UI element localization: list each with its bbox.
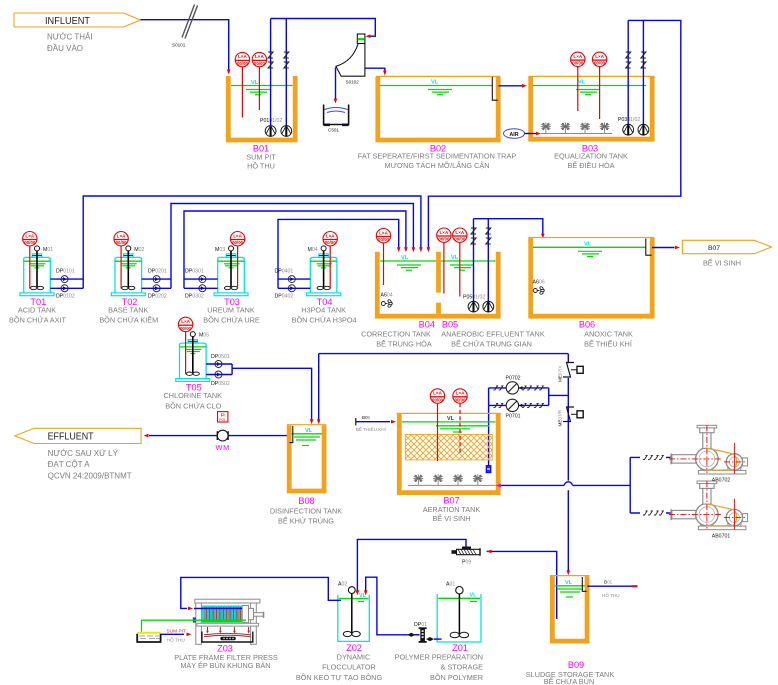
banner B07 (to biological tank) xyxy=(682,240,771,267)
tank B08 xyxy=(287,425,326,491)
wire blower AB0701 suction branch xyxy=(630,511,672,515)
banner EFFLUENT xyxy=(15,428,141,480)
flex break B05 riser2 xyxy=(486,228,491,244)
wire blower AB0702 suction branch xyxy=(630,455,672,459)
svg-text:SUM PIT: SUM PIT xyxy=(167,628,187,634)
dosing pump DP0302 xyxy=(199,285,206,292)
svg-text:POL: POL xyxy=(219,418,226,422)
instrument LS B01-2 xyxy=(252,52,266,110)
wire T02 dosing to B04 xyxy=(142,204,414,289)
wire P09 suction from B09 xyxy=(487,551,557,619)
svg-text:B05: B05 xyxy=(442,319,458,329)
svg-text:M04: M04 xyxy=(308,247,318,253)
svg-text:HỒ THU: HỒ THU xyxy=(247,161,275,171)
svg-text:BỒN CHỨA AXIT: BỒN CHỨA AXIT xyxy=(9,315,66,325)
connector sump pit xyxy=(161,628,192,643)
flex break riser2 xyxy=(284,52,289,68)
mixer A606 xyxy=(533,280,545,295)
wire S0102 solids chute to C501 xyxy=(335,68,337,99)
tank B04+B05 shell xyxy=(377,252,498,317)
svg-text:DP0301: DP0301 xyxy=(185,269,204,275)
tank T04 xyxy=(307,246,341,296)
arrow into B01 xyxy=(227,70,231,75)
green filtrate ticks under plates xyxy=(202,621,241,623)
wire T01 dosing to B04 xyxy=(50,196,421,288)
svg-text:VL: VL xyxy=(470,593,478,599)
svg-text:AERATION TANK: AERATION TANK xyxy=(423,505,481,514)
svg-text:DP0101: DP0101 xyxy=(56,269,75,275)
dosing pump DP0502 xyxy=(215,371,222,378)
svg-text:P0702: P0702 xyxy=(505,376,520,382)
instrument LS B07-1 xyxy=(430,389,444,461)
svg-text:BỒN CHỨA URE: BỒN CHỨA URE xyxy=(203,315,260,325)
svg-text:P0701: P0701 xyxy=(505,414,520,420)
screen S0102 xyxy=(336,34,365,85)
container C501 xyxy=(324,105,349,133)
svg-text:WM: WM xyxy=(216,443,230,452)
svg-text:VL: VL xyxy=(401,255,409,261)
wire B09 outlet connector xyxy=(587,580,637,598)
divider wall B04|B05 xyxy=(436,252,441,314)
air manifold B07 xyxy=(408,484,496,486)
air fitting in B07 xyxy=(486,466,491,473)
svg-text:DP0102: DP0102 xyxy=(56,293,75,299)
svg-text:BỂ VI SINH: BỂ VI SINH xyxy=(432,514,470,523)
wire T03 dosing to B04 xyxy=(184,211,406,288)
svg-text:Z03: Z03 xyxy=(217,643,233,653)
wire P09 discharge to Z02 xyxy=(357,539,466,590)
svg-text:BỒN POLYMER: BỒN POLYMER xyxy=(430,672,483,682)
svg-text:FAT SEPERATE/FIRST SEDIMENTATI: FAT SEPERATE/FIRST SEDIMENTATION TRAP xyxy=(358,152,517,161)
svg-text:DYNAMIC: DYNAMIC xyxy=(337,652,371,661)
svg-text:BỒN CHỨA H3PO4: BỒN CHỨA H3PO4 xyxy=(292,315,357,325)
instrument LS B05-2 xyxy=(453,228,467,297)
pump P0101 xyxy=(265,126,276,137)
svg-text:VL: VL xyxy=(431,80,439,86)
svg-text:A02: A02 xyxy=(338,582,347,588)
svg-text:C501: C501 xyxy=(328,128,339,133)
svg-text:DP0501: DP0501 xyxy=(211,354,230,360)
svg-text:BASE TANK: BASE TANK xyxy=(108,305,148,314)
dosing pump DP0202 xyxy=(153,285,160,292)
instrument LS T05 xyxy=(178,317,192,374)
svg-text:DP0202: DP0202 xyxy=(148,293,167,299)
svg-text:DP0302: DP0302 xyxy=(185,293,204,299)
svg-text:VL: VL xyxy=(251,80,259,86)
feed pipe into plates xyxy=(194,607,242,609)
wire B08 outlet to effluent xyxy=(149,435,287,437)
svg-text:HỒ THU: HỒ THU xyxy=(602,592,620,598)
svg-text:B06: B06 xyxy=(362,415,371,420)
svg-text:A01: A01 xyxy=(446,582,455,588)
magenta arrow air inlet xyxy=(496,484,502,488)
svg-text:M03: M03 xyxy=(215,247,225,253)
dosing pump DP0501 xyxy=(215,361,222,368)
svg-text:EFFLUENT: EFFLUENT xyxy=(48,432,95,443)
svg-text:BỂ KHỨ TRÙNG: BỂ KHỨ TRÙNG xyxy=(278,517,334,526)
svg-text:VL: VL xyxy=(447,416,455,422)
svg-text:BỂ ĐIỀU HÒA: BỂ ĐIỀU HÒA xyxy=(567,160,614,170)
tank Z01 polymer xyxy=(437,582,481,642)
svg-text:BỂ CHỨA TRUNG GIAN: BỂ CHỨA TRUNG GIAN xyxy=(451,340,532,349)
pipe hop over riser xyxy=(564,482,572,486)
wire air main from blowers to B07 xyxy=(501,457,630,513)
tank B02 xyxy=(376,76,500,140)
svg-text:VL: VL xyxy=(305,428,313,434)
wire Z02 outlet to filter press xyxy=(181,577,341,608)
mixer A604 xyxy=(381,293,393,308)
wire influent line xyxy=(141,20,229,70)
svg-text:HỒ THU: HỒ THU xyxy=(167,636,186,643)
dosing pump DP0102 xyxy=(61,285,68,292)
svg-text:ACID TANK: ACID TANK xyxy=(18,305,56,314)
svg-text:A606: A606 xyxy=(533,280,545,286)
filter press Z03 xyxy=(194,599,264,644)
svg-text:ANAEROBIC EFFLUENT TANK: ANAEROBIC EFFLUENT TANK xyxy=(441,329,545,338)
svg-text:FI: FI xyxy=(221,413,225,418)
svg-text:VL: VL xyxy=(451,255,459,261)
svg-text:DP0402: DP0402 xyxy=(275,293,294,299)
svg-text:ME07/X: ME07/X xyxy=(558,366,563,382)
svg-text:DP01: DP01 xyxy=(414,622,427,628)
svg-text:H3PO4 TANK: H3PO4 TANK xyxy=(301,305,346,314)
flex break B03 riser2 xyxy=(641,52,646,68)
svg-text:Z02: Z02 xyxy=(346,643,362,653)
svg-text:INFLUENT: INFLUENT xyxy=(45,16,91,27)
weir B06 xyxy=(646,239,652,256)
svg-text:VL: VL xyxy=(565,580,573,586)
svg-text:B07: B07 xyxy=(443,495,459,505)
instrument LS T01 xyxy=(23,232,37,289)
svg-text:BỂ CHỨA BÙN: BỂ CHỨA BÙN xyxy=(544,677,594,685)
svg-text:M01: M01 xyxy=(43,247,53,253)
diffuser B03-1 xyxy=(541,123,551,134)
svg-text:P0301/02: P0301/02 xyxy=(618,117,640,123)
svg-text:BỂ THIẾU KHÍ: BỂ THIẾU KHÍ xyxy=(584,339,633,349)
instrument LS B03-2 xyxy=(592,52,606,119)
svg-text:S0102: S0102 xyxy=(346,80,360,85)
valve DP01 discharge xyxy=(408,633,416,637)
svg-text:NƯỚC THẢI: NƯỚC THẢI xyxy=(47,32,93,41)
pump P0701 xyxy=(493,399,543,419)
svg-text:MƯƠNG TÁCH MỠ/LẮNG CẬN: MƯƠNG TÁCH MỠ/LẮNG CẬN xyxy=(385,161,490,170)
flex break B05 riser1 xyxy=(471,228,476,244)
instrument LS B04 xyxy=(376,229,390,286)
svg-text:ME07/R: ME07/R xyxy=(558,409,563,426)
pump P0502 xyxy=(483,301,494,312)
tray xyxy=(202,632,253,643)
svg-text:BỒN KEO TỰ TẠO BÔNG: BỒN KEO TỰ TẠO BÔNG xyxy=(296,672,383,682)
svg-text:B01: B01 xyxy=(604,580,613,585)
wire filtrate green line to sump xyxy=(142,620,247,631)
weir B08 xyxy=(290,426,293,443)
svg-text:ĐẦU VÀO: ĐẦU VÀO xyxy=(47,43,83,53)
pump P0501 xyxy=(468,301,479,312)
tank B01 xyxy=(228,76,295,140)
dosing pump DP0301 xyxy=(199,276,206,283)
svg-text:ĐẠT CỘT A: ĐẠT CỘT A xyxy=(48,460,91,469)
wire air drop into B07 xyxy=(488,405,490,465)
tank B03 xyxy=(529,76,655,139)
plate pack xyxy=(201,606,242,623)
wire Z01 to DP01 xyxy=(434,638,442,640)
left leg xyxy=(196,603,202,644)
right leg xyxy=(251,603,257,644)
air manifold B03 xyxy=(541,133,612,135)
top beam xyxy=(195,599,260,603)
blower AB0702 xyxy=(669,425,748,483)
valve Z01 suction xyxy=(426,637,434,641)
svg-text:POLYMER PREPARATION: POLYMER PREPARATION xyxy=(395,652,483,661)
tank T03 xyxy=(214,246,248,296)
instrument box above WM xyxy=(218,412,228,422)
pump P0102 xyxy=(281,126,292,137)
svg-text:M02: M02 xyxy=(134,247,144,253)
banner INFLUENT xyxy=(14,13,141,53)
tank T02 xyxy=(111,246,145,296)
flex break B03 riser1 xyxy=(626,52,631,68)
svg-text:BỄ TRUNG HÒA: BỄ TRUNG HÒA xyxy=(376,340,432,349)
pump P0302 xyxy=(638,124,649,135)
pump P09 screw pump xyxy=(452,547,481,566)
dosing pump DP0401 xyxy=(288,276,295,283)
wire polymer dosing to Z02 xyxy=(366,577,420,635)
diffuser B07-3 xyxy=(453,474,463,485)
dosing pump DP0201 xyxy=(153,276,160,283)
wire B06 outlet to banner xyxy=(652,247,675,249)
svg-text:SUM PIT: SUM PIT xyxy=(246,153,276,162)
svg-text:NƯỚC SAU XỨ LÝ: NƯỚC SAU XỨ LÝ xyxy=(48,449,119,458)
follower plate + hydraulic xyxy=(242,606,248,623)
wire P0701/P0702 loop xyxy=(489,388,569,406)
instrument LS T02 xyxy=(114,232,128,289)
svg-text:CORRECTION TANK: CORRECTION TANK xyxy=(361,329,431,338)
wire B03 pump risers to B04 xyxy=(428,20,680,248)
diffuser B03-2 xyxy=(560,123,570,134)
pump P0702 xyxy=(493,376,543,395)
svg-text:DP0201: DP0201 xyxy=(148,269,167,275)
wire T04 dosing to B04 xyxy=(278,219,399,288)
svg-text:VL: VL xyxy=(584,241,592,247)
svg-text:B04: B04 xyxy=(419,319,435,329)
svg-text:BỂ THIẾU KHÍ: BỂ THIẾU KHÍ xyxy=(356,426,387,432)
wire T05 chlorine to B08 xyxy=(206,364,312,421)
tank Z02 flocculator xyxy=(338,582,370,642)
svg-text:MÁY ÉP BÙN KHUNG BẢN: MÁY ÉP BÙN KHUNG BẢN xyxy=(180,661,270,670)
svg-text:BỒN CHỨA CLO: BỒN CHỨA CLO xyxy=(165,400,221,410)
dosing pump DP0402 xyxy=(288,285,295,292)
svg-text:P09: P09 xyxy=(462,559,471,565)
svg-text:A604: A604 xyxy=(381,293,393,299)
svg-text:DISINFECTION TANK: DISINFECTION TANK xyxy=(270,506,342,515)
diffuser B07-1 xyxy=(413,474,423,485)
shelf xyxy=(197,623,259,626)
tank B06 xyxy=(529,238,655,317)
svg-text:ANOXIC TANK: ANOXIC TANK xyxy=(584,329,633,338)
svg-text:B09: B09 xyxy=(568,660,584,670)
svg-text:QCVN 24:2009/BTNMT: QCVN 24:2009/BTNMT xyxy=(48,471,132,480)
svg-text:UREUM TANK: UREUM TANK xyxy=(207,305,255,314)
wire main header y=353.6 xyxy=(319,353,569,355)
weir B09 xyxy=(582,577,586,591)
svg-text:B07: B07 xyxy=(708,245,720,252)
svg-text:AB0701: AB0701 xyxy=(712,534,731,540)
svg-text:B06: B06 xyxy=(579,319,595,329)
wire P0101/02 risers to S0102 xyxy=(271,19,376,126)
water meter WM xyxy=(216,430,230,452)
wire S0102 outlet to B02 xyxy=(365,68,385,71)
wire clarified water main to B08 xyxy=(318,354,320,421)
AIR source bubble xyxy=(504,129,542,139)
wire B02 to B03 xyxy=(499,85,523,87)
weir B02 xyxy=(492,77,498,100)
tank T05 xyxy=(176,332,210,382)
connector stub from B06 to B07 xyxy=(356,415,396,432)
diffuser B03-3 xyxy=(580,123,590,134)
media crosshatch zone B07 xyxy=(405,435,492,460)
dosing pump DP01 xyxy=(414,622,427,643)
svg-text:B08: B08 xyxy=(298,496,314,506)
svg-text:M05: M05 xyxy=(199,333,209,339)
valve ME07/R xyxy=(558,407,584,427)
instrument LS B03-1 xyxy=(571,52,585,111)
svg-text:BỒN CHỨA KIỀM: BỒN CHỨA KIỀM xyxy=(99,315,158,325)
sump box xyxy=(137,633,160,642)
svg-text:AIR: AIR xyxy=(509,132,518,138)
diffuser B03-4 xyxy=(600,123,610,134)
svg-text:DP0502: DP0502 xyxy=(211,381,230,387)
svg-text:S0101: S0101 xyxy=(172,43,186,48)
tank T01 xyxy=(20,246,54,296)
valve ME07/X xyxy=(558,363,584,383)
flex break riser1 xyxy=(268,52,273,68)
screen S0101 xyxy=(172,5,198,48)
instrument LS B01-1 xyxy=(235,52,249,117)
filtrate fitting xyxy=(193,617,196,622)
pump P0301 xyxy=(623,124,634,135)
dosing pump DP0101 xyxy=(61,276,68,283)
drip arrows xyxy=(208,627,249,632)
diffuser B07-2 xyxy=(433,474,443,485)
wire sludge/air riser x=568.3 xyxy=(567,354,569,571)
svg-text:& STORAGE: & STORAGE xyxy=(441,663,484,672)
svg-text:BỂ VI SINH: BỂ VI SINH xyxy=(703,259,741,268)
diffuser B07-4 xyxy=(473,474,483,485)
instrument LS B05-1 xyxy=(437,228,451,294)
tank B09 xyxy=(550,576,590,642)
instrument LS T04 xyxy=(323,232,337,289)
tank B07 aeration xyxy=(397,413,501,492)
svg-text:VL: VL xyxy=(578,80,586,86)
wire P0501/02 risers to B06 xyxy=(474,219,543,301)
svg-text:FLOCCULATOR: FLOCCULATOR xyxy=(322,663,376,672)
blower AB0701 xyxy=(669,481,748,540)
svg-text:CHLORINE TANK: CHLORINE TANK xyxy=(164,391,223,400)
svg-text:EQUALIZATION TANK: EQUALIZATION TANK xyxy=(554,152,628,161)
instrument LS B07-2 xyxy=(453,389,467,455)
svg-text:Z01: Z01 xyxy=(452,643,468,653)
instrument LS T03 xyxy=(230,232,244,289)
